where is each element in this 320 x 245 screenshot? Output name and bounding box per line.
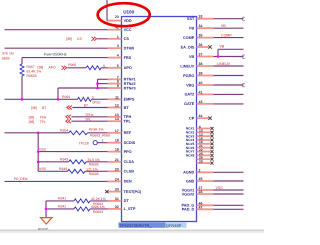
NC pin 21 stub xyxy=(197,147,211,149)
svg-text:R0605: R0605 xyxy=(89,163,99,167)
svg-text:BT: BT xyxy=(84,103,88,107)
junction VB branch / pin 37 xyxy=(217,55,220,58)
svg-text:VSS: VSS xyxy=(39,148,47,152)
op-amp U100 IC body (QFN48) xyxy=(122,17,197,222)
svg-text:TPH: TPH xyxy=(40,115,47,119)
pin 18 (SCDIS) stub xyxy=(108,142,122,144)
pin 2 wire xyxy=(214,171,244,173)
wire R942 left lead xyxy=(46,208,74,210)
wire DTHR net (pin 3) xyxy=(5,47,108,49)
svg-text:44: 44 xyxy=(199,114,203,118)
svg-text:REF: REF xyxy=(124,131,132,135)
wire VSS drop vertical xyxy=(37,133,39,172)
NC pin 16 stub xyxy=(197,143,211,145)
wire BT to pin 12 xyxy=(72,107,107,109)
pin 44 no-connect X xyxy=(208,117,211,120)
pin 37 wire end curl xyxy=(242,55,245,58)
svg-text:APO: APO xyxy=(124,66,132,70)
net arrow TPH << xyxy=(66,115,71,119)
pin 21 (CLSA) stub xyxy=(108,161,122,163)
pin 35 (COMP) stub xyxy=(197,37,214,39)
NC pin 6 no-connect X xyxy=(211,127,214,130)
svg-text:NC#8: NC#8 xyxy=(186,154,195,158)
NC pin 13 stub xyxy=(197,135,211,137)
wire RTN feed pin9 xyxy=(58,87,108,89)
pin 36 no-connect X xyxy=(208,45,211,48)
net arrow BT << xyxy=(67,106,72,110)
pin 34 wire xyxy=(214,27,244,29)
pin 45 (GND) stub xyxy=(197,180,214,182)
NC pin 26 no-connect X xyxy=(211,158,214,161)
svg-text:COMP: COMP xyxy=(183,36,195,40)
wire R969 to pin 11 xyxy=(92,98,108,100)
pin 40 (VBG) stub xyxy=(197,84,214,86)
svg-text:DEN: DEN xyxy=(124,180,132,184)
wire VCC net (pin 42) xyxy=(5,29,108,31)
svg-text:DTHR: DTHR xyxy=(124,47,135,51)
svg-text:TEST(PG): TEST(PG) xyxy=(124,190,142,194)
wire TPH to pin 13 xyxy=(71,116,107,118)
pin 34 (FB) stub xyxy=(197,27,214,29)
svg-text:GAT2: GAT2 xyxy=(184,93,194,97)
NC pin 22 stub xyxy=(197,151,211,153)
pin 31 (DT) stub xyxy=(108,200,122,202)
svg-text:VB: VB xyxy=(189,55,195,59)
wire VDD vertical to top xyxy=(106,0,108,21)
pin 39 wire xyxy=(214,75,244,77)
resistor R967 zigzag xyxy=(20,64,24,76)
resistor R967 top lead xyxy=(21,58,23,64)
pin 47 (PAD_D) stub xyxy=(197,208,214,210)
pin 27 wire xyxy=(214,189,244,191)
wire RTN bracket pin7 xyxy=(98,78,108,80)
svg-text:[38]: [38] xyxy=(29,115,35,119)
NC pin 29 no-connect X xyxy=(211,162,214,165)
wire VB branch horizontal xyxy=(218,48,244,50)
junction RTN pin8 xyxy=(96,82,99,85)
resistor R966 zigzag xyxy=(86,66,101,70)
svg-text:SST: SST xyxy=(187,17,195,21)
svg-text:VB: VB xyxy=(220,45,225,49)
svg-text:37: 37 xyxy=(199,53,203,57)
NC pin 29 stub xyxy=(197,162,211,164)
wire VDD corner xyxy=(106,20,109,22)
NC pin 10 no-connect X xyxy=(211,131,214,134)
svg-text:TPL: TPL xyxy=(124,120,132,124)
pin 43 (GATE) stub xyxy=(197,103,214,105)
pin 41 wire xyxy=(214,93,244,95)
svg-text:[38]: [38] xyxy=(66,37,72,41)
wire CS to pin 1 xyxy=(97,38,107,40)
svg-text:EA_DIS: EA_DIS xyxy=(181,45,195,49)
pin 47 wire xyxy=(214,208,244,210)
svg-text:VCC: VCC xyxy=(124,28,132,32)
wire CLSA branch to R943 xyxy=(38,161,68,163)
svg-text:Fsw=250KHz: Fsw=250KHz xyxy=(44,52,67,56)
svg-text:47: 47 xyxy=(199,205,203,209)
wire R943 to pin 21 xyxy=(86,161,107,163)
pin 44 (CP) stub xyxy=(197,117,209,119)
svg-text:3: 3 xyxy=(117,44,119,48)
svg-text:28: 28 xyxy=(199,190,203,194)
pin 27 (VGG#1) stub xyxy=(197,189,214,191)
window bottom band xyxy=(0,230,264,231)
pin 2 (AGND) stub xyxy=(197,171,214,173)
svg-text:LINEUV: LINEUV xyxy=(180,64,194,68)
svg-text:2: 2 xyxy=(199,168,201,172)
junction CLSA branch xyxy=(37,161,40,164)
wire REF net long xyxy=(5,132,69,134)
svg-text:R943: R943 xyxy=(60,158,68,162)
svg-text:TPHx: TPHx xyxy=(85,113,94,117)
wire APO to R966 xyxy=(67,67,86,69)
pin 43 wire xyxy=(214,103,244,105)
svg-text:49.9K 1%: 49.9K 1% xyxy=(89,128,104,132)
svg-text:12: 12 xyxy=(115,104,119,108)
resistor R967 bottom lead xyxy=(21,76,23,99)
wire RTN drop vertical xyxy=(57,88,59,99)
resistor R969 zigzag xyxy=(78,97,92,101)
ground PGND symbol xyxy=(41,218,53,224)
pin 41 (GAT2) stub xyxy=(197,93,214,95)
NC pin 26 stub xyxy=(197,158,211,160)
svg-text:VSS: VSS xyxy=(216,186,224,190)
svg-text:5: 5 xyxy=(117,64,119,68)
pin 45 wire xyxy=(214,180,244,182)
svg-text:QFN48P: QFN48P xyxy=(166,223,182,228)
svg-text:RTN#3: RTN#3 xyxy=(124,86,136,90)
junction RTN pin9 xyxy=(96,87,99,90)
pin 38 (LINEUV) stub xyxy=(197,65,214,67)
svg-text:VBG: VBG xyxy=(186,83,194,87)
net arrow CS >> xyxy=(91,37,96,41)
pin 24 (DEN) stub xyxy=(108,180,122,182)
svg-text:R966: R966 xyxy=(68,63,76,67)
svg-text:30: 30 xyxy=(115,188,119,192)
NC pin 25 stub xyxy=(197,154,211,156)
svg-text:AGND: AGND xyxy=(183,171,194,175)
pin 39 (PGRG) stub xyxy=(197,75,214,77)
pin 46 wire xyxy=(214,204,244,206)
svg-text:0R0J: 0R0J xyxy=(93,101,101,105)
pin 5 (APO) stub xyxy=(108,67,122,69)
wire FRS (pin 4) xyxy=(22,57,108,59)
svg-text:[38]: [38] xyxy=(38,66,44,70)
pin 7 (RTN#1) stub xyxy=(108,78,122,80)
svg-text:36: 36 xyxy=(199,43,203,47)
svg-text:14: 14 xyxy=(115,117,119,121)
junction REF / VSS drop xyxy=(37,132,40,135)
wire TP128 to pin 18 xyxy=(97,142,107,144)
svg-text:23: 23 xyxy=(115,15,119,19)
svg-text:VSS: VSS xyxy=(39,167,47,171)
svg-text:SCDIS: SCDIS xyxy=(124,141,136,145)
NC pin 25 no-connect X xyxy=(211,154,214,157)
svg-text:U100: U100 xyxy=(123,10,134,15)
svg-text:R0603: R0603 xyxy=(27,74,37,78)
svg-text:DT: DT xyxy=(124,199,130,203)
wire RTN bracket vertical xyxy=(97,79,99,88)
wire R966 to pin 5 xyxy=(101,67,107,69)
NC pin 22 no-connect X xyxy=(211,150,214,153)
svg-text:TPS2373DRVTR_: TPS2373DRVTR_ xyxy=(119,223,152,228)
svg-text:RTN#2: RTN#2 xyxy=(124,82,136,86)
svg-text:PAD_D: PAD_D xyxy=(182,208,195,212)
junction R967 / net A xyxy=(21,98,24,101)
wire RTN bracket pin8 xyxy=(98,83,108,85)
svg-text:R942: R942 xyxy=(58,205,66,209)
net arrow TPL << xyxy=(66,119,71,123)
svg-text:8: 8 xyxy=(117,80,119,84)
svg-text:29: 29 xyxy=(199,159,203,163)
svg-text:9: 9 xyxy=(117,84,119,88)
svg-text:13: 13 xyxy=(115,113,119,117)
NC pin 15 no-connect X xyxy=(211,138,214,141)
svg-text:VB: VB xyxy=(221,24,226,28)
svg-text:R0605: R0605 xyxy=(89,172,99,176)
svg-text:0603: 0603 xyxy=(2,57,10,61)
svg-text:FB: FB xyxy=(189,27,194,31)
junction PPO branch xyxy=(37,150,40,153)
resistor R942 zigzag xyxy=(74,207,90,211)
pin 28 (VGG#2) stub xyxy=(197,193,214,195)
svg-text:17: 17 xyxy=(115,129,119,133)
wire PPO branch (pin 19) xyxy=(38,151,107,153)
svg-text:35: 35 xyxy=(199,34,203,38)
svg-text:CLSA: CLSA xyxy=(124,160,135,164)
pin 28 wire xyxy=(214,193,244,195)
pin 1 (CS) stub xyxy=(108,38,122,40)
pin 17 (REF) stub xyxy=(108,132,122,134)
svg-text:18: 18 xyxy=(115,139,119,143)
svg-text:1: 1 xyxy=(102,139,104,143)
svg-text:32: 32 xyxy=(115,205,119,209)
svg-text:R0603_H060: R0603_H060 xyxy=(90,134,110,138)
pin 12 (BT) stub xyxy=(108,107,122,109)
resistor R949 zigzag xyxy=(68,169,86,173)
pin 37 (VB) stub xyxy=(197,56,214,58)
pin 33 (SST) stub xyxy=(197,18,214,20)
NC pin 15 stub xyxy=(197,139,211,141)
wire R949 to pin 20 xyxy=(85,170,108,172)
svg-text:BT: BT xyxy=(124,106,130,110)
svg-text:CS: CS xyxy=(77,37,82,41)
NC pin 10 stub xyxy=(197,131,211,133)
svg-text:PPO: PPO xyxy=(124,150,132,154)
pin 3 (DTHR) stub xyxy=(108,47,122,49)
pin 11 (EMPS) stub xyxy=(108,98,122,100)
svg-text:[38]: [38] xyxy=(31,106,37,110)
svg-text:34: 34 xyxy=(199,24,203,28)
svg-text:11: 11 xyxy=(115,95,119,99)
svg-text:LINEUV: LINEUV xyxy=(217,62,231,66)
pin 23 (VDD) stub xyxy=(108,20,122,22)
pin 37 wire xyxy=(214,56,244,58)
svg-text:24: 24 xyxy=(115,177,119,181)
pin 42 (VCC) stub xyxy=(108,29,122,31)
svg-text:GND: GND xyxy=(186,179,195,183)
wire R941 left lead xyxy=(46,200,74,202)
pin 40 wire xyxy=(214,84,244,86)
svg-text:R969: R969 xyxy=(62,95,70,99)
net arrow APO >> xyxy=(62,66,67,70)
junction R942 / PGND drop xyxy=(45,208,48,211)
pin 8 (RTN#2) stub xyxy=(108,83,122,85)
svg-text:GATE: GATE xyxy=(184,102,195,106)
svg-text:BT: BT xyxy=(42,106,46,110)
svg-text:R954: R954 xyxy=(60,128,68,132)
pin 20 (CLSB) stub xyxy=(108,170,122,172)
pin 30 no-connect X xyxy=(105,190,108,193)
svg-text:TPL: TPL xyxy=(85,117,91,121)
pin 35 wire xyxy=(214,37,244,39)
svg-text:COMP: COMP xyxy=(221,34,232,38)
svg-text:CS: CS xyxy=(124,37,130,41)
resistor R954 zigzag xyxy=(69,131,88,135)
wire DEN net (pin 24) xyxy=(5,180,108,182)
svg-text:TP128: TP128 xyxy=(79,141,89,145)
NC pin 21 no-connect X xyxy=(211,146,214,149)
svg-text:19: 19 xyxy=(115,148,119,152)
svg-text:[38]: [38] xyxy=(29,120,35,124)
wire R942 to pin 32 xyxy=(90,208,108,210)
NC pin 16 no-connect X xyxy=(211,142,214,145)
part number highlight (selected) xyxy=(119,222,166,227)
svg-text:VGG#2: VGG#2 xyxy=(182,192,195,196)
svg-text:R941: R941 xyxy=(58,197,66,201)
resistor R943 zigzag xyxy=(69,160,87,164)
pin 30 (TEST(PG)) stub xyxy=(108,191,122,193)
NC pin 13 no-connect X xyxy=(211,135,214,138)
svg-text:20: 20 xyxy=(115,167,119,171)
junction RTN drop / net A xyxy=(57,98,60,101)
svg-text:TPH: TPH xyxy=(124,115,132,119)
svg-text:31: 31 xyxy=(115,197,119,201)
svg-text:VDD: VDD xyxy=(124,19,132,23)
svg-text:38: 38 xyxy=(199,62,203,66)
pin 36 (EA_DIS) stub xyxy=(197,46,209,48)
wire net A (to R969/pin 11) xyxy=(5,98,78,100)
svg-text:CP: CP xyxy=(189,117,195,121)
pin 40 wire end curl xyxy=(242,83,245,86)
wire CLSB branch to R949 xyxy=(38,170,67,172)
svg-text:R949: R949 xyxy=(59,167,67,171)
pin 33 wire xyxy=(214,18,244,20)
svg-text:37K 1%: 37K 1% xyxy=(2,52,14,56)
svg-text:APO: APO xyxy=(49,66,57,70)
svg-text:L_STP: L_STP xyxy=(124,207,136,211)
svg-text:PGRG: PGRG xyxy=(183,74,194,78)
svg-text:TPL: TPL xyxy=(40,120,46,124)
pin 13 (TPH) stub xyxy=(108,116,122,118)
wire PGND drop vertical xyxy=(45,201,47,218)
svg-text:PD_DEN: PD_DEN xyxy=(14,177,28,181)
resistor R941 zigzag xyxy=(74,199,90,203)
svg-text:39: 39 xyxy=(199,72,203,76)
pin 46 (PAD_G) stub xyxy=(197,204,214,206)
pin 4 (FRS) stub xyxy=(108,57,122,59)
svg-text:CLSB: CLSB xyxy=(124,170,135,174)
svg-text:R0603: R0603 xyxy=(93,210,103,214)
wire R954 to pin 17 xyxy=(88,132,108,134)
svg-text:40: 40 xyxy=(199,81,203,85)
NC pin 6 stub xyxy=(197,127,211,129)
svg-text:33: 33 xyxy=(199,15,203,19)
pin 19 (PPO) stub xyxy=(108,151,122,153)
wire TPL to pin 14 xyxy=(71,120,107,122)
wire R941 to pin 31 xyxy=(90,200,108,202)
svg-text:4: 4 xyxy=(117,54,119,58)
pin 38 wire xyxy=(214,65,244,67)
wire VB branch vertical xyxy=(217,49,219,56)
svg-text:FRS: FRS xyxy=(124,56,132,60)
svg-text:1: 1 xyxy=(117,35,119,39)
test point TP128 circle xyxy=(93,141,97,145)
pin 14 (TPL) stub xyxy=(108,120,122,122)
pin 9 (RTN#3) stub xyxy=(108,87,122,89)
svg-text:43: 43 xyxy=(199,100,203,104)
svg-text:R967: R967 xyxy=(27,65,35,69)
svg-text:45: 45 xyxy=(199,177,203,181)
pin 33 wire end curl xyxy=(242,17,245,20)
svg-text:21: 21 xyxy=(115,158,119,162)
red highlight ellipse around U100 xyxy=(98,3,150,26)
svg-text:41: 41 xyxy=(199,90,203,94)
svg-text:EMPS: EMPS xyxy=(124,98,135,102)
pin 32 (L_STP) stub xyxy=(108,208,122,210)
